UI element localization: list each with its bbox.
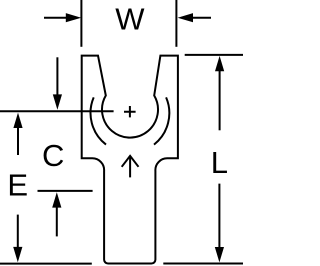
C reference line	[38, 190, 93, 192]
L arrowhead up	[215, 56, 224, 71]
centerline	[0, 110, 114, 112]
left spring arc	[91, 97, 106, 144]
W arrow right shaft	[193, 17, 212, 19]
W extension line left	[80, 0, 82, 47]
W extension line right	[175, 0, 177, 47]
C arrowhead down	[53, 94, 62, 109]
center mark cross	[124, 106, 136, 117]
svg-text:C: C	[42, 138, 64, 173]
L arrow up shaft	[219, 70, 221, 131]
L bottom extension line	[163, 263, 243, 265]
C bottom arrow shaft	[56, 207, 58, 237]
svg-text:E: E	[7, 168, 28, 203]
E arrowhead down	[13, 247, 22, 262]
L arrowhead down	[215, 247, 224, 262]
svg-text:L: L	[211, 145, 228, 180]
svg-text:W: W	[115, 2, 145, 37]
W arrowhead right	[178, 13, 193, 22]
C arrowhead up	[52, 192, 61, 207]
L top extension line	[185, 54, 243, 56]
right spring arc	[154, 97, 169, 144]
insertion direction arrow	[122, 156, 139, 178]
W arrow left shaft	[44, 17, 67, 19]
W arrowhead left	[66, 13, 81, 22]
E bottom reference line	[0, 263, 92, 265]
E arrowhead up	[13, 113, 22, 128]
terminal body outline	[82, 56, 178, 264]
L arrow down shaft	[218, 184, 220, 248]
E top arrow shaft	[17, 128, 19, 156]
C top arrow shaft	[56, 57, 58, 95]
E bottom arrow shaft	[17, 215, 19, 248]
